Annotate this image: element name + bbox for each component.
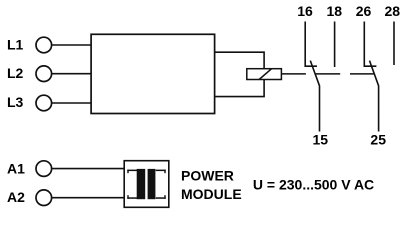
transformer icon left winding: [127, 169, 145, 199]
contact NO lead 18: [334, 22, 336, 68]
svg-text:28: 28: [385, 3, 401, 19]
wire A1 to power module: [51, 168, 124, 170]
svg-text:MODULE: MODULE: [181, 186, 242, 202]
svg-text:18: 18: [327, 3, 343, 19]
svg-text:A2: A2: [7, 189, 25, 205]
contact NC lead 16: [305, 22, 317, 67]
svg-text:L2: L2: [7, 65, 24, 81]
power module box: [124, 161, 169, 208]
mechanical linkage dashed line: [281, 73, 374, 75]
wire top bracket to coil: [215, 52, 265, 68]
main device box: [91, 34, 215, 113]
relay coil K: [247, 69, 282, 80]
wire A2 to power module: [51, 197, 124, 199]
wire L1 to box: [51, 44, 91, 46]
terminal circle L1: [36, 37, 52, 53]
svg-text:POWER: POWER: [181, 168, 234, 184]
svg-text:25: 25: [370, 132, 386, 148]
terminal circle L2: [36, 66, 52, 82]
svg-text:15: 15: [313, 132, 329, 148]
svg-text:U = 230...500 V AC: U = 230...500 V AC: [253, 177, 374, 193]
svg-text:26: 26: [356, 3, 372, 19]
terminal circle L3: [36, 95, 52, 111]
svg-text:16: 16: [297, 3, 313, 19]
contact arm and common lead 15: [310, 61, 319, 132]
wire L3 to box: [51, 102, 91, 104]
contact arm and common lead 25: [370, 61, 379, 132]
svg-text:A1: A1: [7, 160, 25, 176]
svg-text:L1: L1: [7, 37, 24, 53]
svg-text:L3: L3: [7, 94, 24, 110]
transformer icon right winding: [148, 169, 166, 199]
contact NC lead 26: [364, 22, 376, 67]
wire bottom bracket to coil: [215, 80, 265, 97]
wire L2 to box: [51, 73, 91, 75]
terminal circle A1: [36, 161, 52, 177]
terminal circle A2: [36, 190, 52, 206]
contact NO lead 28: [393, 22, 395, 66]
